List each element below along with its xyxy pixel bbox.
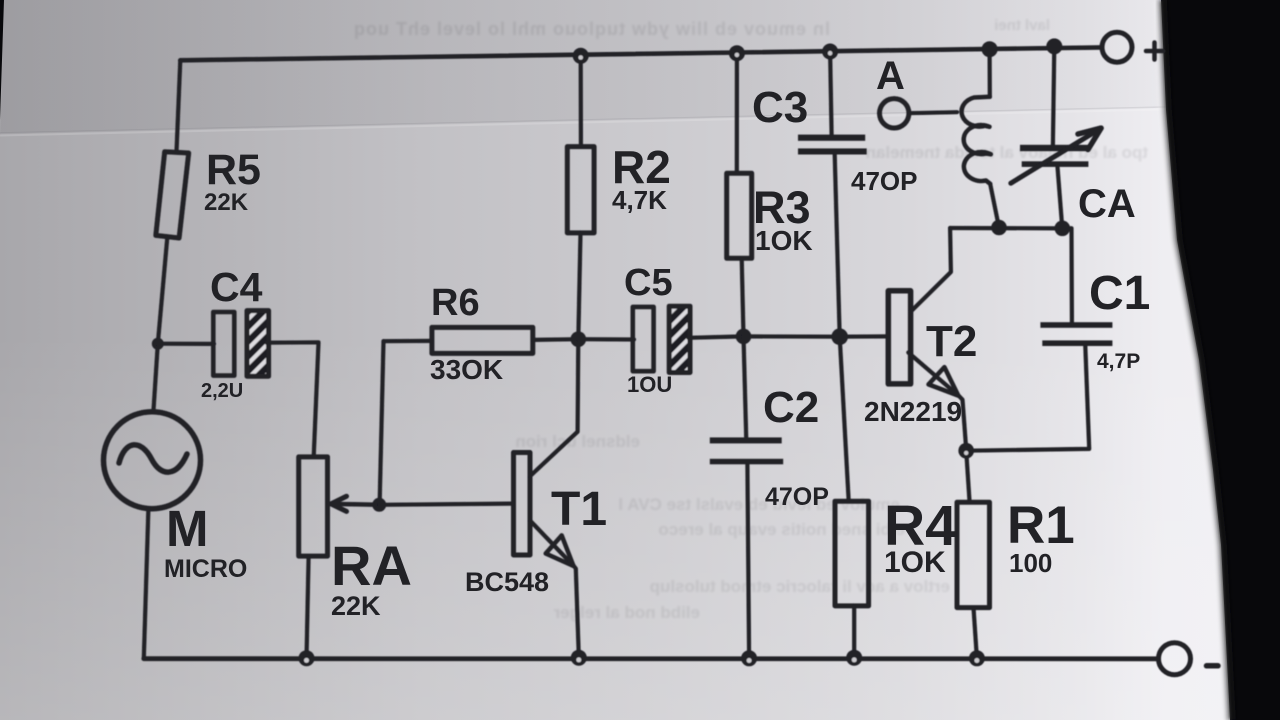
- crease shadow line: [0, 107, 1166, 133]
- capacitor C4: [158, 342, 214, 346]
- wire top rail: [180, 47, 1102, 60]
- svg-text:1OU: 1OU: [627, 372, 672, 397]
- capacitor C2: [744, 336, 747, 437]
- svg-text:tpo al ed noiaov al tsulda tne: tpo al ed noiaov al tsulda tnemelan: [866, 143, 1148, 162]
- svg-text:100: 100: [1009, 548, 1052, 578]
- resistor R2: [579, 56, 583, 147]
- svg-text:T1: T1: [551, 483, 607, 536]
- wire micro to bottom rail: [144, 509, 149, 659]
- svg-text:C3: C3: [752, 83, 808, 132]
- node CA bottom: [1055, 221, 1071, 237]
- svg-text:ertlov a acv li ralocric etmod: ertlov a acv li ralocric etmod tuloslup: [650, 577, 950, 596]
- svg-text:33OK: 33OK: [430, 354, 503, 385]
- svg-text:M: M: [166, 500, 208, 557]
- svg-text:ln emuov eb lliw ydw tuqlouo m: ln emuov eb lliw ydw tuqlouo mhl lo leve…: [353, 19, 830, 39]
- svg-text:C2: C2: [763, 383, 819, 432]
- capacitor C1: [1069, 228, 1074, 322]
- resistor R3: [735, 53, 739, 173]
- svg-text:4,7P: 4,7P: [1097, 350, 1140, 373]
- paper top band above crease: [0, 0, 1166, 140]
- inductor coil: [987, 49, 991, 97]
- wire junction to T1 base: [379, 504, 513, 505]
- svg-text:1OK: 1OK: [755, 225, 813, 256]
- svg-text:emulov ed leviu eb evalsl tse: emulov ed leviu eb evalsl tse CVA l: [618, 495, 900, 514]
- variable capacitor CA: [1053, 46, 1054, 145]
- node T2 emitter: [958, 443, 974, 459]
- svg-text:R1: R1: [1007, 496, 1075, 555]
- resistor R6: [384, 339, 432, 344]
- svg-text:CA: CA: [1078, 182, 1136, 226]
- svg-text:MICRO: MICRO: [164, 555, 247, 583]
- bottom brightening: [0, 330, 1230, 720]
- svg-text:lavl tnei: lavl tnei: [994, 17, 1050, 34]
- rail junction dots: [573, 48, 589, 64]
- svg-text:2,2U: 2,2U: [201, 380, 243, 402]
- svg-text:C5: C5: [624, 262, 673, 304]
- wire collector node horizontal: [950, 226, 1071, 231]
- wire antenna A: [880, 99, 909, 128]
- microphone M: [104, 412, 201, 509]
- node R3 bottom: [736, 329, 752, 345]
- svg-text:22K: 22K: [204, 189, 249, 216]
- svg-text:47OP: 47OP: [765, 483, 829, 511]
- node T2 base: [831, 328, 848, 345]
- svg-text:A: A: [876, 54, 905, 98]
- wire base node to T2: [840, 334, 889, 339]
- svg-text:2N2219: 2N2219: [864, 396, 962, 427]
- svg-text:C1: C1: [1089, 267, 1150, 320]
- node T1 collector: [571, 331, 587, 347]
- node RA wiper junction: [372, 498, 386, 512]
- svg-text:C4: C4: [210, 264, 263, 310]
- svg-text:R6: R6: [431, 282, 480, 324]
- svg-text:22K: 22K: [331, 591, 381, 621]
- potentiometer RA: [299, 457, 328, 556]
- svg-text:BC548: BC548: [465, 567, 549, 597]
- svg-text:RA: RA: [331, 534, 412, 597]
- wire R3 node to T2 base node: [744, 334, 840, 339]
- wire R5 to node: [158, 238, 168, 344]
- transistor T2: [888, 291, 910, 384]
- wire left drop to R5: [177, 60, 181, 151]
- svg-text:eldsnel ucl rion: eldsnel ucl rion: [515, 432, 640, 451]
- wire R6 branch down: [380, 341, 384, 505]
- svg-text:1OK: 1OK: [884, 546, 946, 579]
- node coil bottom: [991, 220, 1007, 236]
- svg-text:R5: R5: [206, 146, 261, 194]
- minus terminal: [1159, 643, 1191, 675]
- svg-text:4,7K: 4,7K: [612, 185, 667, 215]
- wire node to micro: [153, 344, 157, 412]
- transistor T1: [514, 453, 531, 556]
- wire bottom rail: [144, 656, 1159, 661]
- node C4 junction: [152, 338, 164, 350]
- plus terminal: [1102, 32, 1132, 62]
- RA wiper arrow: [331, 502, 379, 507]
- resistor R4: [835, 501, 869, 606]
- resistor R5: [156, 152, 189, 238]
- dot pinholes: [578, 55, 583, 60]
- capacitor C3: [830, 52, 832, 135]
- svg-text:T2: T2: [926, 317, 977, 366]
- right edge inner shadow: [1163, 0, 1232, 720]
- bleedthrough ghost text: [353, 17, 1148, 162]
- capacitor C5: [578, 337, 634, 341]
- svg-text:47OP: 47OP: [851, 166, 918, 196]
- resistor R1: [966, 451, 969, 503]
